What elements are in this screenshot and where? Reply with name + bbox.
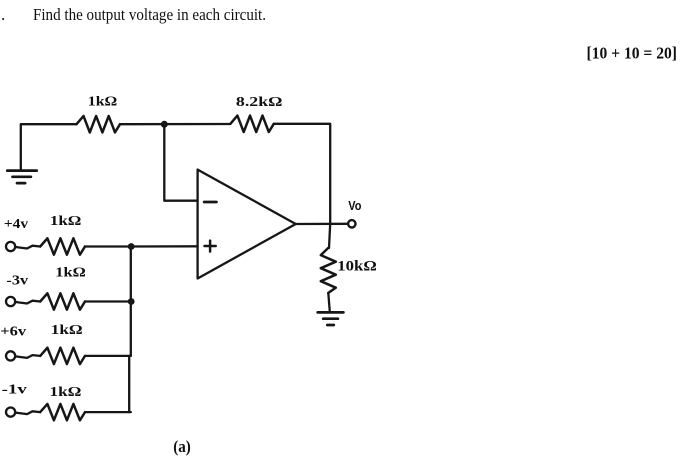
- wire: [16, 411, 41, 414]
- wire output: [296, 223, 348, 225]
- wire: [21, 124, 77, 170]
- wire non-inverting input: [131, 245, 198, 247]
- wire: [16, 246, 41, 249]
- op-amp U1 non-inverting pin marker: [205, 241, 216, 252]
- wire: [120, 123, 230, 125]
- svg-text:1kΩ: 1kΩ: [51, 322, 83, 337]
- op-amp U1: [198, 170, 296, 279]
- svg-text:1kΩ: 1kΩ: [55, 264, 86, 279]
- svg-text:-1v: -1v: [2, 381, 27, 396]
- svg-text:8.2kΩ: 8.2kΩ: [236, 94, 283, 109]
- input terminal V1 (+4v): [6, 242, 15, 251]
- node junction dot row 1: [128, 243, 135, 250]
- wire: [16, 301, 41, 304]
- svg-text:1kΩ: 1kΩ: [88, 93, 118, 108]
- svg-text:[10 + 10 = 20]: [10 + 10 = 20]: [587, 43, 678, 62]
- svg-text:+6v: +6v: [0, 324, 26, 339]
- input terminal V2 (-3v): [6, 297, 15, 306]
- wire: [85, 300, 131, 302]
- wire: [328, 293, 330, 312]
- resistor R1 1k: [77, 116, 121, 132]
- node Vo output terminal: [348, 220, 355, 227]
- svg-text:1kΩ: 1kΩ: [50, 213, 82, 228]
- wire: [85, 245, 131, 247]
- svg-text:-3v: -3v: [6, 272, 28, 287]
- svg-text:10kΩ: 10kΩ: [337, 259, 377, 275]
- ground: [7, 171, 36, 184]
- svg-text:.: .: [1, 5, 5, 24]
- resistor R2 8.2k feedback: [230, 116, 273, 132]
- input terminal V4 (-1v): [6, 408, 15, 417]
- svg-text:(a): (a): [173, 437, 191, 456]
- wire: [85, 411, 131, 413]
- node junction dot row 2: [128, 298, 135, 305]
- wire: [16, 355, 41, 358]
- wire: [85, 355, 131, 357]
- wire: [274, 124, 330, 224]
- wire: [329, 224, 330, 248]
- wire summing bus: [129, 247, 131, 413]
- ground: [318, 312, 344, 325]
- node A junction dot: [161, 121, 168, 128]
- op-amp U1 inverting pin marker: [204, 201, 216, 204]
- resistor R4 1k input: [40, 293, 85, 309]
- svg-text:Find the output voltage in eac: Find the output voltage in each circuit.: [33, 5, 266, 24]
- svg-text:Vo: Vo: [348, 199, 362, 213]
- resistor R3 1k input: [40, 238, 85, 254]
- resistor R6 1k input: [40, 404, 85, 420]
- resistor R5 1k input: [40, 348, 85, 364]
- input terminal V3 (+6v): [6, 351, 15, 360]
- svg-text:1kΩ: 1kΩ: [50, 384, 82, 399]
- wire inverting input: [164, 124, 197, 200]
- svg-text:+4v: +4v: [4, 216, 28, 231]
- resistor R7 10k load: [321, 248, 336, 293]
